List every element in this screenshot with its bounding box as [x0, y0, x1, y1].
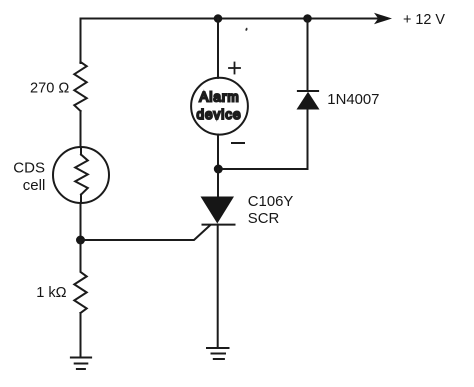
- svg-text:+ 12 V: + 12 V: [403, 12, 445, 28]
- node: junction dot top rail / alarm branch: [214, 14, 223, 23]
- svg-text:270 Ω: 270 Ω: [30, 81, 69, 97]
- resistor 270 ohm: [74, 62, 86, 111]
- svg-text:cell: cell: [23, 177, 46, 194]
- stray mark: [245, 28, 247, 31]
- ground (left): [71, 358, 91, 370]
- svg-text:C106Y: C106Y: [248, 194, 294, 210]
- svg-text:device: device: [197, 107, 242, 122]
- wire: CDS cell to gate node: [80, 203, 82, 240]
- wire: top rail to alarm device: [217, 19, 219, 78]
- wire: 270 ohm to CDS cell: [80, 111, 82, 147]
- node: junction dot gate node: [76, 236, 85, 245]
- svg-text:Alarm: Alarm: [199, 89, 239, 104]
- wire: diode to anode node: [223, 110, 308, 170]
- power arrow + 12 V: [374, 13, 392, 24]
- label: - polarity of alarm device: [232, 142, 244, 144]
- diode 1N4007: [297, 91, 320, 110]
- wire: alarm device to cathode node: [217, 135, 219, 169]
- svg-text:1 kΩ: 1 kΩ: [36, 285, 66, 301]
- ground (below SCR): [207, 348, 229, 359]
- label: + polarity of alarm device: [229, 63, 240, 74]
- node: junction dot anode node: [214, 165, 223, 174]
- svg-text:SCR: SCR: [248, 211, 280, 227]
- wire: anode node to SCR: [217, 169, 219, 197]
- wire: 1 kohm to ground: [80, 313, 82, 358]
- photoresistor CDS cell: [53, 147, 109, 203]
- wire: +12V top rail: [81, 19, 378, 64]
- node: junction dot top rail / diode branch: [303, 14, 312, 23]
- wire: SCR cathode to ground: [217, 225, 219, 348]
- svg-text:CDS: CDS: [13, 160, 45, 177]
- alarm device: [191, 78, 248, 135]
- resistor 1 kohm: [74, 240, 86, 313]
- svg-text:1N4007: 1N4007: [327, 92, 379, 108]
- wire: gate node to SCR gate: [81, 225, 211, 240]
- wire: diode branch, top rail down to diode: [307, 19, 309, 92]
- SCR C106Y: [201, 197, 235, 225]
